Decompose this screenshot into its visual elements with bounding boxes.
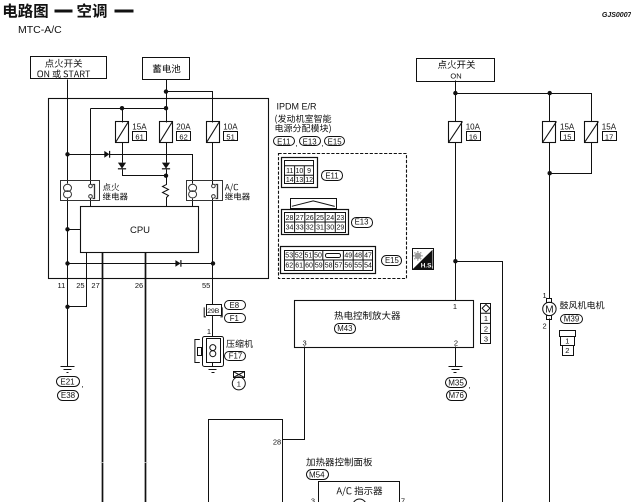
wire bottom rail right of diode [182,263,213,265]
svg-text:GJS0007: GJS0007 [602,12,631,19]
wire bus above fuses y=108.2 [91,108,167,110]
svg-text:25: 25 [316,215,324,222]
inline connector 29B [204,305,222,317]
wire battery down to fuse 62 [166,80,168,123]
svg-text:2: 2 [484,324,488,333]
svg-text:48: 48 [354,253,362,260]
diode under fuse 62 [162,163,170,169]
connector E11 (label) [274,137,295,146]
svg-text:1: 1 [565,337,569,346]
diode on bottom rail [175,260,181,267]
H.S. view mark [413,249,434,270]
dashed connector detail box [279,154,407,279]
svg-text:33: 33 [296,225,304,232]
svg-text:59: 59 [315,263,323,270]
svg-text:27: 27 [91,281,99,290]
svg-text:E13: E13 [355,218,369,227]
node fuse15 top [548,91,552,95]
svg-text:E8: E8 [230,301,240,310]
svg-text:60: 60 [305,263,313,270]
wire CPU pin 27 (thick, to bottom) [102,253,104,502]
ground (IPDM pins 11/25) [61,367,75,373]
svg-text:2: 2 [454,339,458,348]
svg-text:14: 14 [286,177,294,184]
svg-text:CPU: CPU [130,225,150,236]
note symbol flag over circle 1 [232,372,245,390]
svg-text:M76: M76 [449,391,464,400]
connector M43 [335,324,356,334]
connector view E11 [282,158,318,188]
relay ignition (点火继电器) [61,181,100,201]
svg-text:E13: E13 [303,137,317,146]
svg-text:11: 11 [286,168,293,175]
svg-text:M: M [545,305,553,316]
label 继电器 (A/C relay) [225,192,250,200]
svg-text:13: 13 [296,177,304,184]
label 电源分配模块) [276,124,331,133]
wire branch to CPU left [68,229,81,231]
svg-text:17: 17 [605,133,613,142]
svg-text:M43: M43 [337,324,352,333]
svg-text:1: 1 [207,327,211,336]
wire diode to junction [123,170,167,176]
svg-text:24: 24 [326,215,334,222]
wire bus down to ignition relay contact [90,109,92,185]
svg-text:,: , [469,381,471,390]
svg-text:7: 7 [401,496,405,502]
wire ignition branch to diode D1 [68,154,105,156]
label 继电器 (relay) [103,192,128,200]
connector E8 [225,301,246,310]
label (发动机室智能 [275,114,331,123]
label 压缩机 [226,339,253,347]
svg-text:,: , [321,139,323,148]
wire fuse15 top stub [549,94,551,122]
svg-text:15A: 15A [132,122,147,131]
svg-text:32: 32 [306,225,314,232]
wire CPU pin 25 [68,253,87,307]
wire ignition switch to relay coil (x=67.5) [67,80,69,184]
title dash 2 [115,10,134,13]
svg-text:62: 62 [179,133,187,142]
svg-text:,: , [295,139,297,148]
svg-text:1: 1 [453,302,457,311]
svg-text:47: 47 [364,253,372,260]
svg-text:9: 9 [307,168,311,175]
connector E21 [57,377,80,387]
node pin25 joins ground line [65,305,69,309]
wire right ignition to fuse 16 [455,81,457,122]
label 加热器控制面板 [306,458,372,467]
svg-text:52: 52 [295,253,303,260]
label 点火开关 (left box) [45,59,82,68]
ground (compressor) [206,367,220,373]
svg-text:29B: 29B [207,308,220,315]
connector E38 [58,391,79,401]
label A/C 指示器 [336,486,382,496]
svg-text:10: 10 [296,168,304,175]
fuse 61 15A [116,122,129,143]
svg-text:55: 55 [354,263,362,270]
svg-text:27: 27 [296,215,304,222]
svg-text:34: 34 [286,225,294,232]
title 电路图 [4,3,48,18]
blower motor M39 [543,299,556,320]
wire M43 pin3 to heater panel pin 28 [283,347,305,440]
fuse 17 15A [585,122,599,143]
svg-text:16: 16 [469,133,477,142]
wire fuse62 bottom to diode [166,143,168,163]
heater control panel box [209,420,283,502]
svg-text:3: 3 [484,334,488,343]
svg-text:10A: 10A [466,122,481,131]
CPU block [81,207,199,253]
indicator lamp (clipped) [353,499,367,502]
thermo control amplifier M43 box [295,301,474,348]
ground (M43) [449,367,463,373]
svg-text:E11: E11 [325,172,338,181]
svg-text:E15: E15 [385,256,400,265]
wire fuse61 top stub [122,109,124,123]
title dash 1 [55,10,73,13]
node battery branch [164,89,168,93]
svg-text:28: 28 [286,215,294,222]
svg-text:ON: ON [450,72,461,81]
wire battery branch to fuse 51 [167,92,213,123]
svg-text:E21: E21 [60,378,75,387]
svg-text:1: 1 [237,379,241,388]
wire ignition relay contact to CPU [90,199,92,207]
fuse 16 10A [449,122,463,143]
svg-text:23: 23 [337,215,345,222]
svg-text:54: 54 [364,263,372,270]
connector view E15 [281,247,376,274]
wire relay coil to ground (x=67.5) [67,199,69,367]
fuse 51 10A [207,122,220,143]
fuse 62 20A [160,122,173,143]
node rail right [211,261,215,265]
svg-text:28: 28 [273,437,281,446]
svg-text:15: 15 [563,133,571,142]
label 点火开关 (right box) [438,60,475,69]
svg-text:F1: F1 [230,314,239,323]
wire M43 pin2 to ground [455,347,457,367]
connector M54 [307,470,329,480]
wire right top bus [456,94,592,122]
svg-text:26: 26 [306,215,314,222]
svg-text:26: 26 [135,281,143,290]
svg-text:3: 3 [303,339,307,348]
svg-text:58: 58 [325,263,333,270]
svg-text:IPDM E/R: IPDM E/R [277,101,318,111]
svg-text:2: 2 [543,321,547,330]
svg-text:2: 2 [565,346,569,355]
svg-text:E38: E38 [61,391,76,400]
wire compressor to ground [212,363,214,367]
svg-text:M54: M54 [309,470,325,479]
node ignition diode branch [65,152,69,156]
svg-text:1: 1 [484,314,488,323]
node fuse62 top [164,106,168,110]
svg-text:15A: 15A [602,122,617,131]
label 蓄电池 [153,64,181,73]
svg-text:31: 31 [316,225,324,232]
wire diode D1 to A/C relay coil [110,155,193,184]
connector E13 (label) [300,137,321,146]
svg-text:61: 61 [135,133,143,142]
connector F17 [225,352,246,361]
IPDM E/R block outline [49,99,269,279]
svg-text:M35: M35 [448,379,464,388]
svg-text:51: 51 [226,133,234,142]
wire fuse61 bottom to diode [122,143,124,163]
diode under fuse 61 [118,163,126,169]
connector F1 [225,314,246,323]
node CPU left branch [65,227,69,231]
label 鼓风机电机 [560,301,604,309]
wire 29B to compressor [212,316,214,337]
node rail left [65,261,69,265]
svg-text:62: 62 [285,263,293,270]
svg-text:M39: M39 [564,314,580,323]
node diode junction [164,174,168,178]
label ON 或 START [37,70,90,78]
fuse 15 15A [543,122,557,143]
box battery 蓄电池 [143,58,190,80]
svg-text:,: , [82,380,84,389]
wire bottom rail left of diode [68,263,176,265]
wire fuse16 to M43 pin1 [455,143,457,301]
wire fuse15 down [549,143,551,299]
label 热电控制放大器 [334,311,400,320]
resistor (coil feed) [163,176,169,207]
connector E15 (label) [325,137,345,146]
svg-text:F17: F17 [229,352,242,361]
wire fuse51 bottom to A/C relay contact [212,143,214,185]
node fuse61 top [120,106,124,110]
wire A/C relay contact to pin 55 / compressor [212,199,214,305]
compressor 压缩机 [195,337,224,367]
relay A/C (A/C 继电器) [187,181,223,201]
A/C indicator box [319,482,400,502]
svg-text:10A: 10A [223,122,238,131]
svg-text:53: 53 [285,253,293,260]
svg-text:H.S.: H.S. [421,263,434,270]
svg-text:25: 25 [76,281,84,290]
connector view E13 [282,199,349,235]
svg-text:61: 61 [295,263,303,270]
svg-text:12: 12 [305,177,313,184]
node fuse15/17 join [548,171,552,175]
wire CPU pin 26 (thick, to bottom) [145,253,147,502]
connector M35 [446,378,467,388]
svg-text:29: 29 [337,225,345,232]
title 空调 [77,3,106,18]
svg-text:15A: 15A [560,122,575,131]
connector M39 [561,315,583,324]
svg-text:30: 30 [326,225,334,232]
svg-text:57: 57 [335,263,343,270]
label 点火 (relay) [103,183,119,191]
wire fuse17 join [550,143,592,174]
connector index column (diamond,1,2,3) [481,304,492,344]
svg-text:49: 49 [344,253,352,260]
box ignition switch ON or START [31,57,107,79]
svg-text:3: 3 [311,496,315,502]
svg-text:50: 50 [314,253,322,260]
label A/C (relay) [225,183,239,191]
svg-text:56: 56 [344,263,352,270]
box ignition switch ON (right) [417,59,495,82]
node right ignition branch [453,91,457,95]
wire A/C relay coil to CPU [192,199,194,207]
connector M76 [447,391,467,401]
diode D1 on ignition branch [104,151,109,158]
svg-text:55: 55 [202,281,210,290]
svg-text:11: 11 [58,281,66,290]
wire diode to resistor junction [166,170,168,185]
wire blower to bottom [549,319,551,502]
wire branch to A/C indicator feed [456,262,503,502]
svg-text:MTC-A/C: MTC-A/C [18,24,62,36]
svg-text:E11: E11 [277,137,290,146]
blower connector detail (1,2) [560,331,576,356]
node M43 feed branch [453,259,457,263]
svg-text:20A: 20A [176,122,191,131]
svg-text:51: 51 [305,253,313,260]
svg-text:E15: E15 [328,137,343,146]
